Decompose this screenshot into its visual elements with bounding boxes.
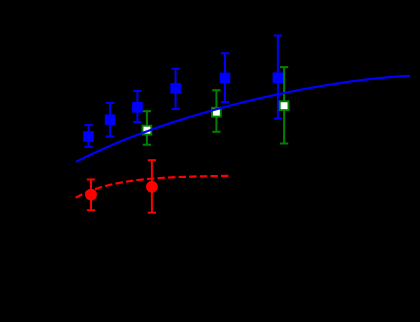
blue errorbar 5: [221, 53, 229, 102]
blue errorbar 2: [106, 103, 114, 136]
blue square marker 6: [273, 72, 284, 83]
red dashed fit curve: [76, 176, 232, 198]
blue square marker 4: [170, 83, 181, 94]
red circle marker 2: [146, 181, 158, 193]
green open-square marker 1: [143, 126, 152, 135]
blue errorbar 4: [171, 69, 179, 109]
blue errorbar 3: [133, 91, 141, 122]
green open-square marker 2: [212, 108, 221, 117]
blue errorbar 6: [274, 36, 282, 119]
blue square marker 3: [132, 102, 143, 113]
green errorbar 2: [212, 90, 220, 132]
red errorbar 1: [87, 180, 95, 211]
blue fit curve: [76, 76, 410, 162]
blue square marker 5: [220, 73, 231, 84]
red circle marker 1: [85, 189, 97, 201]
blue square marker 1: [83, 131, 94, 142]
red errorbar 2: [148, 160, 156, 213]
green errorbar 3: [280, 67, 288, 143]
blue errorbar 1: [84, 125, 92, 147]
green errorbar 1: [143, 111, 151, 145]
green open-square marker 3: [280, 101, 289, 110]
blue square marker 2: [105, 114, 116, 125]
